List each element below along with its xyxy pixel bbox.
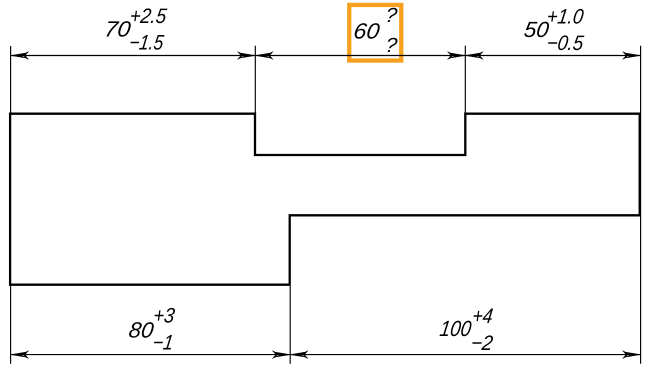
svg-text:60: 60 xyxy=(352,18,382,43)
svg-text:?: ? xyxy=(384,4,399,27)
svg-text:+2.5: +2.5 xyxy=(128,5,169,28)
extension line x=256 xyxy=(254,46,256,114)
svg-text:80: 80 xyxy=(127,317,156,342)
extension line x=288.5 (bottom step) xyxy=(289,286,291,364)
part outline xyxy=(10,114,640,285)
svg-text:+3: +3 xyxy=(152,305,176,328)
arrow left tip at 466,55.3 xyxy=(465,52,483,60)
bottom dimension line y=353.3 xyxy=(11,354,641,356)
highlight box (orange) xyxy=(349,5,401,61)
svg-text:−1: −1 xyxy=(151,331,175,355)
svg-text:100: 100 xyxy=(438,317,473,342)
arrow right tip at 466,55.3 xyxy=(448,52,466,60)
arrow right tip at 640,55.3 xyxy=(623,52,641,60)
arrow right tip at 256,55.3 xyxy=(238,52,256,60)
svg-text:?: ? xyxy=(384,34,399,57)
extension line left x=11 (bottom) xyxy=(10,285,12,364)
extension line right x=640 xyxy=(640,46,642,364)
arrow left tip at 288.5,353.3 xyxy=(290,351,308,359)
svg-text:−2: −2 xyxy=(469,332,494,355)
arrow right tip at 288.5,353.3 xyxy=(272,351,290,359)
label 50 +1.0/-0.5 xyxy=(523,5,586,55)
extension line x=466 xyxy=(464,46,466,114)
label 70 +2.5/-1.5 xyxy=(103,5,169,55)
arrow right tip at 640,353.3 xyxy=(623,351,641,359)
svg-text:+4: +4 xyxy=(471,305,495,329)
arrow left tip at 256,55.3 xyxy=(255,52,273,60)
arrow left tip at 11,353.3 xyxy=(11,351,29,359)
label 60 ?/? xyxy=(352,4,399,56)
svg-text:70: 70 xyxy=(103,16,133,41)
top dimension line y=55.3 xyxy=(11,55,641,57)
label 100 +4/-2 xyxy=(438,305,494,355)
label 80 +3/-1 xyxy=(127,305,176,355)
extension line left x=11 (top) xyxy=(10,46,12,114)
svg-text:−1.5: −1.5 xyxy=(128,32,165,55)
svg-text:+1.0: +1.0 xyxy=(545,5,585,28)
arrow left tip at 11,55.3 xyxy=(11,52,29,60)
svg-text:−0.5: −0.5 xyxy=(545,32,586,55)
